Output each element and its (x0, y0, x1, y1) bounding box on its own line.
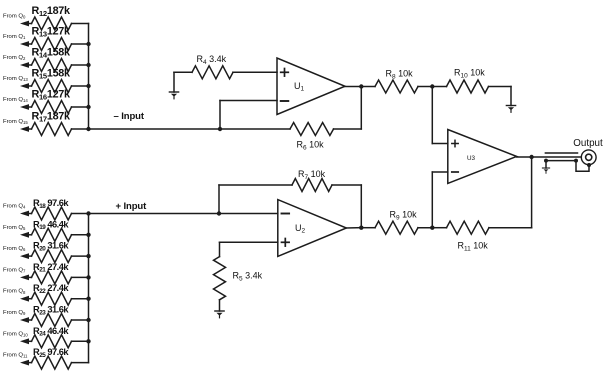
svg-text:R14158k: R14158k (32, 47, 71, 60)
svg-text:From Q9: From Q9 (3, 310, 26, 316)
svg-text:– Input: – Input (114, 111, 145, 122)
svg-text:Output: Output (573, 138, 603, 149)
svg-text:R12187k: R12187k (32, 5, 71, 18)
svg-text:R17187k: R17187k (32, 111, 71, 124)
svg-text:+ Input: + Input (116, 201, 148, 212)
svg-text:From Q11: From Q11 (3, 353, 28, 359)
svg-text:From Q0: From Q0 (3, 14, 26, 20)
svg-text:R13127k: R13127k (32, 26, 71, 39)
svg-text:From Q14: From Q14 (3, 97, 28, 103)
svg-text:From Q8: From Q8 (3, 289, 26, 295)
svg-text:From Q4: From Q4 (3, 204, 26, 210)
svg-text:From Q15: From Q15 (3, 119, 28, 125)
svg-text:From Q7: From Q7 (3, 267, 26, 273)
svg-text:From Q1: From Q1 (3, 34, 26, 40)
svg-text:From Q13: From Q13 (3, 76, 28, 82)
svg-text:From Q2: From Q2 (3, 55, 26, 61)
svg-text:R15158k: R15158k (32, 68, 71, 81)
svg-text:R16127k: R16127k (32, 89, 71, 102)
svg-text:From Q10: From Q10 (3, 331, 28, 337)
svg-text:From Q5: From Q5 (3, 225, 26, 231)
svg-text:U3: U3 (467, 155, 476, 162)
svg-text:From Q6: From Q6 (3, 246, 26, 252)
